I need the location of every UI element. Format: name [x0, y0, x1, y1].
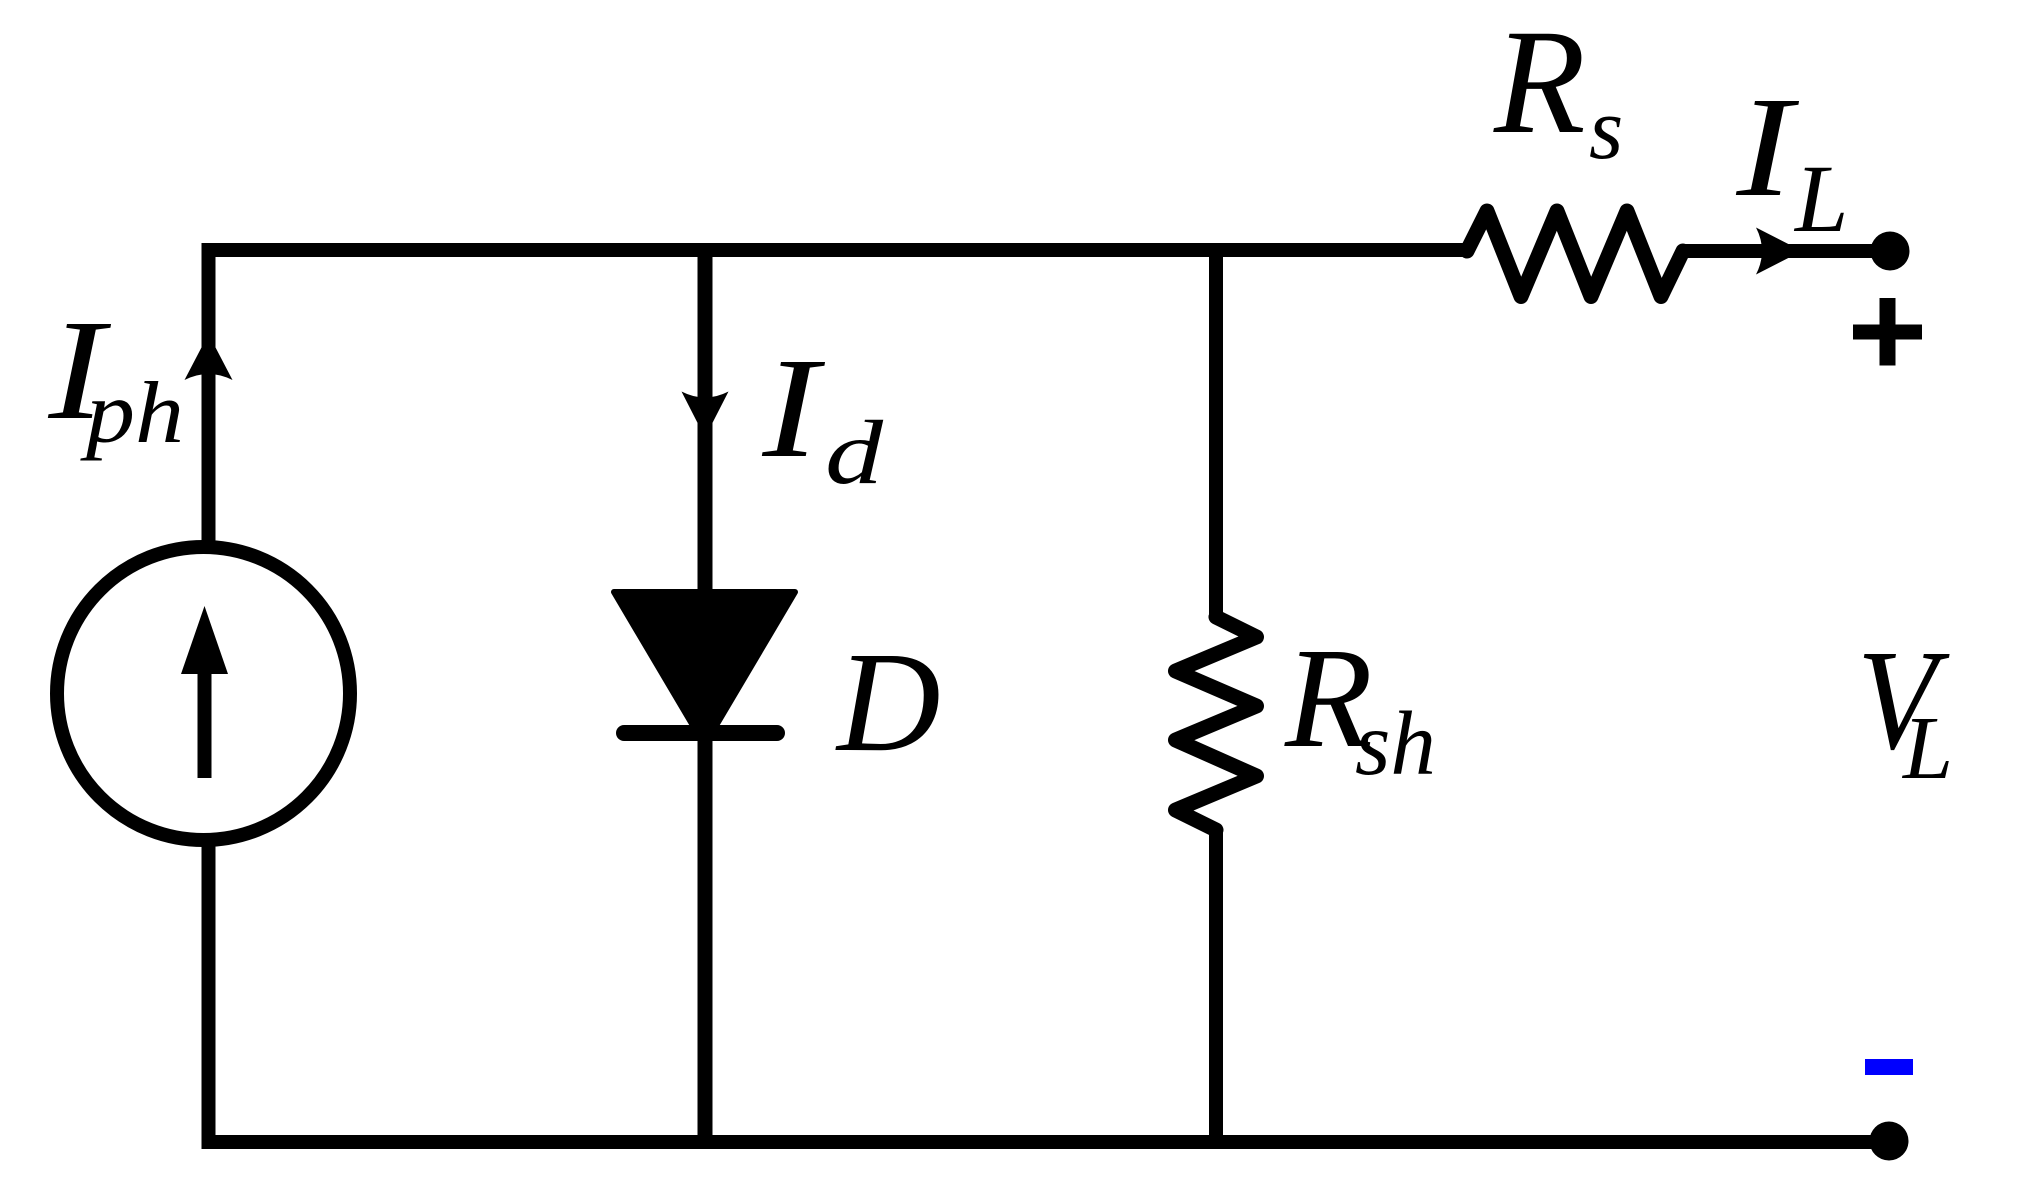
svg-text:I: I: [1735, 68, 1799, 227]
svg-text:I: I: [761, 329, 825, 488]
arrowhead I_d on diode wire: [682, 392, 729, 438]
current source arrow shaft: [198, 670, 212, 778]
svg-text:ph: ph: [79, 365, 184, 462]
wire: Rsh branch upper: [1209, 250, 1223, 619]
wire: left rail lower + bottom rail: [209, 845, 1890, 1142]
current source arrowhead: [181, 606, 228, 674]
arrowhead I_ph on left wire: [185, 334, 233, 380]
svg-text:s: s: [1589, 81, 1623, 178]
wire: top rail right segment: [1683, 244, 1890, 258]
svg-text:L: L: [1901, 699, 1953, 798]
wire: diode branch upper: [698, 250, 713, 600]
resistor R_s zigzag: [1467, 211, 1683, 297]
svg-text:d: d: [825, 402, 884, 503]
svg-text:R: R: [1493, 0, 1586, 165]
terminal node dot top: [1871, 232, 1910, 271]
minus sign (blue): [1865, 1059, 1913, 1075]
svg-text:L: L: [1793, 145, 1848, 252]
diode D cathode bar: [624, 725, 777, 741]
wire: top rail from left corner to Rs: [209, 250, 1468, 550]
svg-text:D: D: [835, 623, 941, 782]
diode D triangle: [614, 592, 795, 745]
resistor R_sh zigzag: [1176, 617, 1257, 830]
wire: diode branch lower: [698, 733, 713, 1142]
svg-text:sh: sh: [1355, 693, 1436, 794]
arrowhead I_L on top rail: [1756, 228, 1802, 275]
current source circle: [57, 547, 350, 840]
wire: Rsh branch lower: [1209, 828, 1223, 1142]
terminal node dot bottom: [1870, 1122, 1909, 1161]
plus sign: [1853, 325, 1922, 340]
